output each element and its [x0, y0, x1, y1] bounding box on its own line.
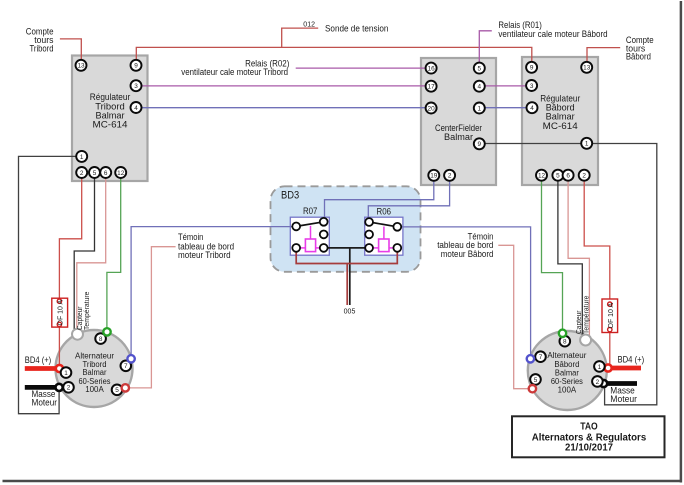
U3 pin 9	[526, 62, 537, 73]
svg-text:3: 3	[530, 83, 534, 90]
U1 pin 13	[76, 60, 87, 71]
svg-text:2: 2	[582, 173, 586, 180]
wire G1 pin 7 to relay K1 R07 pin top-left	[131, 227, 294, 356]
svg-text:005: 005	[344, 309, 356, 316]
label masse moteur G2	[610, 386, 637, 404]
svg-text:100A: 100A	[85, 385, 104, 394]
svg-text:MC-614: MC-614	[93, 120, 128, 130]
relay R06 pin top-left	[365, 218, 373, 226]
U2 pin 5	[474, 63, 485, 74]
wire voltage sense net 012 U1 pin 9 to U3 pin 9	[136, 47, 532, 62]
relay R07 pin mid-right	[320, 231, 328, 239]
svg-text:BD4 (+): BD4 (+)	[25, 355, 51, 365]
G1 capteur temperature connector	[72, 329, 83, 340]
wire temoin tableau de bord Babord to G2 pin 5	[498, 245, 528, 388]
wire U2 pin 9 to U3 pin 1 and ground loop to G2 pin 2	[485, 144, 657, 405]
label compte tours Tribord	[26, 27, 54, 54]
wire U2 pin 19 to relay K1 R07 pin top-right	[325, 181, 434, 218]
wire U1 pin 1 ground loop to G1 pin 2	[19, 156, 77, 413]
relay R06 pin bottom-left	[365, 244, 373, 252]
svg-text:17: 17	[428, 84, 436, 91]
svg-text:1: 1	[80, 154, 84, 161]
relay K2 R06 body	[365, 206, 403, 255]
wire U2 pin 4 to U3 pin 3	[485, 85, 527, 87]
label capteur temperature G1	[77, 291, 91, 330]
svg-text:Sonde de tension: Sonde de tension	[325, 24, 388, 34]
label masse moteur G1	[32, 389, 58, 407]
svg-text:9: 9	[530, 65, 534, 72]
svg-text:19: 19	[430, 173, 438, 180]
svg-text:3: 3	[134, 83, 138, 90]
title block TAO Alternators and Regulators	[512, 416, 665, 457]
centerfielder U2 box	[421, 58, 496, 185]
svg-text:Capteur: Capteur	[576, 310, 583, 334]
U2 pin 16	[426, 63, 437, 74]
ground cable masse moteur G2	[600, 380, 637, 387]
svg-text:Température: Température	[84, 291, 91, 330]
wire U1 pin 4 to U2 pin 20	[142, 107, 427, 109]
label relais R01 ventilateur cale moteur Babord	[498, 20, 607, 39]
svg-text:4: 4	[530, 105, 534, 112]
U2 pin 1	[474, 103, 485, 114]
svg-text:Bâbord: Bâbord	[554, 360, 579, 369]
U2 pin 20	[426, 103, 437, 114]
wire G1 pin 5 to temoin tableau de bord Tribord	[129, 247, 176, 388]
svg-text:5: 5	[478, 66, 482, 73]
U1 pin 3	[131, 80, 142, 91]
U1 pin 1	[76, 151, 87, 162]
svg-text:5: 5	[115, 387, 119, 394]
U3 pin 13	[581, 62, 592, 73]
svg-text:2: 2	[448, 173, 452, 180]
svg-text:8: 8	[99, 336, 103, 343]
label compte tours Babord	[626, 35, 654, 62]
svg-text:12: 12	[117, 170, 125, 177]
relay R06 pin bottom-right	[393, 244, 401, 252]
svg-text:5: 5	[556, 173, 560, 180]
U3 pin 6	[563, 170, 574, 181]
svg-text:moteur Tribord: moteur Tribord	[178, 250, 231, 260]
G1 pin 2	[63, 382, 74, 393]
alternator G2 Babord	[528, 331, 607, 410]
label temoin tableau de bord moteur Babord	[437, 232, 493, 259]
relay R07 pin bottom-left	[292, 244, 300, 252]
U1 pin 9	[131, 60, 142, 71]
G2 pin 2	[592, 376, 603, 387]
label capteur temperature G2	[576, 295, 591, 334]
svg-text:16: 16	[428, 66, 436, 73]
page edge shadow bottom	[3, 480, 683, 483]
svg-text:BD4 (+): BD4 (+)	[618, 355, 645, 365]
wire relais R02 to U2 pin 16	[296, 67, 426, 69]
svg-text:Moteur: Moteur	[610, 394, 637, 404]
label temoin tableau de bord moteur Tribord	[178, 232, 234, 260]
U2 pin 2	[444, 170, 455, 181]
G2 red connector node	[529, 385, 536, 392]
svg-text:R06: R06	[377, 206, 392, 216]
svg-text:1: 1	[64, 370, 68, 377]
G2 pin 5	[530, 374, 541, 385]
svg-text:OF 10 A: OF 10 A	[608, 302, 615, 328]
U1 pin 6	[100, 167, 111, 178]
svg-text:2: 2	[80, 170, 84, 177]
wire fuse F1 bottom to G1 pin 1	[58, 327, 60, 365]
wire U3 pin 5 to capteur temperature G2	[558, 181, 582, 337]
wire fuse F2 bottom to G2 pin 1	[609, 332, 611, 364]
relay R07 pin top-left	[292, 223, 300, 231]
wire relay R07 pin bottom-left to relay R06 pin bottom-right dark red	[296, 252, 397, 264]
G1 pin 5	[112, 385, 123, 396]
svg-text:13: 13	[77, 63, 85, 70]
relay R06 pin top-right	[393, 223, 401, 231]
wire U1 pin 12 to G1 pin 8	[107, 178, 121, 329]
svg-text:21/10/2017: 21/10/2017	[565, 442, 613, 453]
U2 pin 9	[474, 138, 485, 149]
wire U2 pin 5 to relais R01 label	[479, 31, 492, 63]
U2 pin 4	[474, 81, 485, 92]
U1 pin 4	[131, 102, 142, 113]
svg-text:BD3: BD3	[281, 190, 299, 202]
svg-text:6: 6	[566, 173, 570, 180]
svg-text:9: 9	[134, 63, 138, 70]
wire U3 pin 6 to capteur temperature G2	[568, 181, 589, 337]
G1 pin 8	[95, 333, 106, 344]
svg-text:9: 9	[478, 141, 482, 148]
wire U1 pin 2 to fuse F1 top	[59, 178, 81, 299]
relay module BD3 box	[271, 186, 421, 271]
G1 green connector node	[103, 328, 110, 335]
svg-text:7: 7	[124, 363, 128, 370]
relay R07 pin top-right	[320, 218, 328, 226]
G1 red connector node	[122, 384, 129, 391]
svg-text:4: 4	[478, 84, 482, 91]
regulator U3 Babord box	[522, 57, 598, 185]
fuse F2 OF 10 A	[602, 299, 618, 333]
battery cable BD4 plus G1	[25, 365, 63, 372]
relay R07 switch arm	[296, 222, 324, 227]
G2 green connector node	[559, 330, 566, 337]
wire U1 pin 3 to U2 pin 17	[142, 85, 427, 87]
wire compte tours Tribord to U1 pin 13	[60, 39, 81, 61]
wire compte tours Babord to U3 pin 13	[587, 48, 620, 63]
G2 pin 7	[535, 351, 546, 362]
svg-text:TAO: TAO	[580, 422, 598, 433]
svg-text:2: 2	[596, 379, 600, 386]
ground cable masse moteur G1	[25, 384, 63, 391]
battery cable BD4 plus G2	[605, 364, 642, 371]
svg-text:OF 10 A: OF 10 A	[58, 299, 65, 325]
U3 pin 4	[527, 102, 538, 113]
U3 pin 12	[536, 170, 547, 181]
U2 pin 17	[426, 81, 437, 92]
U1 pin 12	[115, 167, 126, 178]
svg-text:R07: R07	[303, 206, 318, 216]
svg-text:ventilateur cale moteur Bâbord: ventilateur cale moteur Bâbord	[498, 29, 607, 39]
wire relay R07 pin bottom-right to relay R06 pin bottom-left	[324, 247, 369, 249]
G2 pin 1	[594, 361, 605, 372]
U1 pin 2	[76, 167, 87, 178]
relay R07 pin bottom-right	[320, 244, 328, 252]
G1 pin 1	[61, 367, 72, 378]
svg-text:MC-614: MC-614	[543, 121, 578, 131]
G1 pin 7	[121, 361, 132, 372]
svg-text:100A: 100A	[558, 386, 577, 395]
svg-text:1: 1	[478, 105, 482, 112]
wire U3 pin 2 to fuse F2 top	[584, 181, 610, 299]
fuse F1 OF 10 A	[52, 298, 68, 327]
relay K1 R07 body	[290, 206, 329, 255]
wire net 005 black drop	[349, 248, 351, 305]
svg-text:5: 5	[93, 170, 97, 177]
svg-text:Balmar: Balmar	[444, 132, 473, 142]
svg-text:012: 012	[303, 22, 315, 29]
svg-text:6: 6	[104, 170, 108, 177]
svg-text:12: 12	[538, 173, 546, 180]
regulator U1 Tribord box	[72, 56, 148, 182]
svg-text:Alternateur: Alternateur	[547, 351, 586, 360]
U3 pin 3	[526, 80, 537, 91]
label relais R02 ventilateur cale moteur Tribord	[181, 59, 289, 77]
svg-text:4: 4	[134, 105, 138, 112]
wire branch to sonde de tension label	[282, 28, 319, 47]
svg-text:13: 13	[583, 65, 591, 72]
G2 blue connector node	[527, 355, 534, 362]
svg-text:1: 1	[598, 364, 602, 371]
U3 pin 1	[581, 138, 592, 149]
wire net 005 dark red drop	[346, 264, 348, 306]
svg-text:20: 20	[428, 105, 436, 112]
wire U1 pin 5 to capteur temperature G1	[74, 178, 94, 332]
svg-text:8: 8	[563, 339, 567, 346]
U2 pin 19	[428, 170, 439, 181]
G2 pin 8	[560, 336, 571, 347]
relay R07 coil	[296, 226, 324, 252]
U1 pin 5	[89, 167, 100, 178]
wire U2 pin 2 to relay K2 R06 pin top-left	[368, 181, 449, 218]
relay R06 switch arm	[369, 222, 397, 227]
page edge shadow right	[680, 1, 683, 483]
svg-text:1: 1	[585, 141, 589, 148]
wire U1 pin 6 to capteur temperature G1	[77, 178, 106, 331]
wire U2 pin 1 to U3 pin 4	[485, 107, 527, 109]
svg-text:Tribord: Tribord	[30, 43, 54, 53]
U3 pin 2	[579, 170, 590, 181]
wire U3 pin 12 to G2 pin 8	[542, 181, 563, 330]
G1 blue connector node	[127, 355, 134, 362]
svg-text:moteur Bâbord: moteur Bâbord	[441, 249, 494, 259]
G2 capteur temperature connector	[580, 335, 591, 346]
svg-text:Bâbord: Bâbord	[626, 52, 651, 62]
svg-text:ventilateur cale moteur Tribor: ventilateur cale moteur Tribord	[181, 67, 288, 77]
svg-text:Moteur: Moteur	[32, 397, 58, 407]
relay R06 coil	[369, 227, 397, 252]
alternator G1 Tribord	[56, 330, 133, 407]
U3 pin 5	[552, 170, 563, 181]
svg-text:2: 2	[67, 385, 71, 392]
svg-text:5: 5	[534, 377, 538, 384]
relay R06 pin mid-left	[365, 231, 373, 239]
wire relay R06 pin top-right to G2 pin 7	[401, 227, 531, 355]
svg-text:Capteur: Capteur	[77, 306, 84, 330]
svg-text:7: 7	[539, 354, 543, 361]
svg-text:Température: Température	[584, 295, 591, 334]
